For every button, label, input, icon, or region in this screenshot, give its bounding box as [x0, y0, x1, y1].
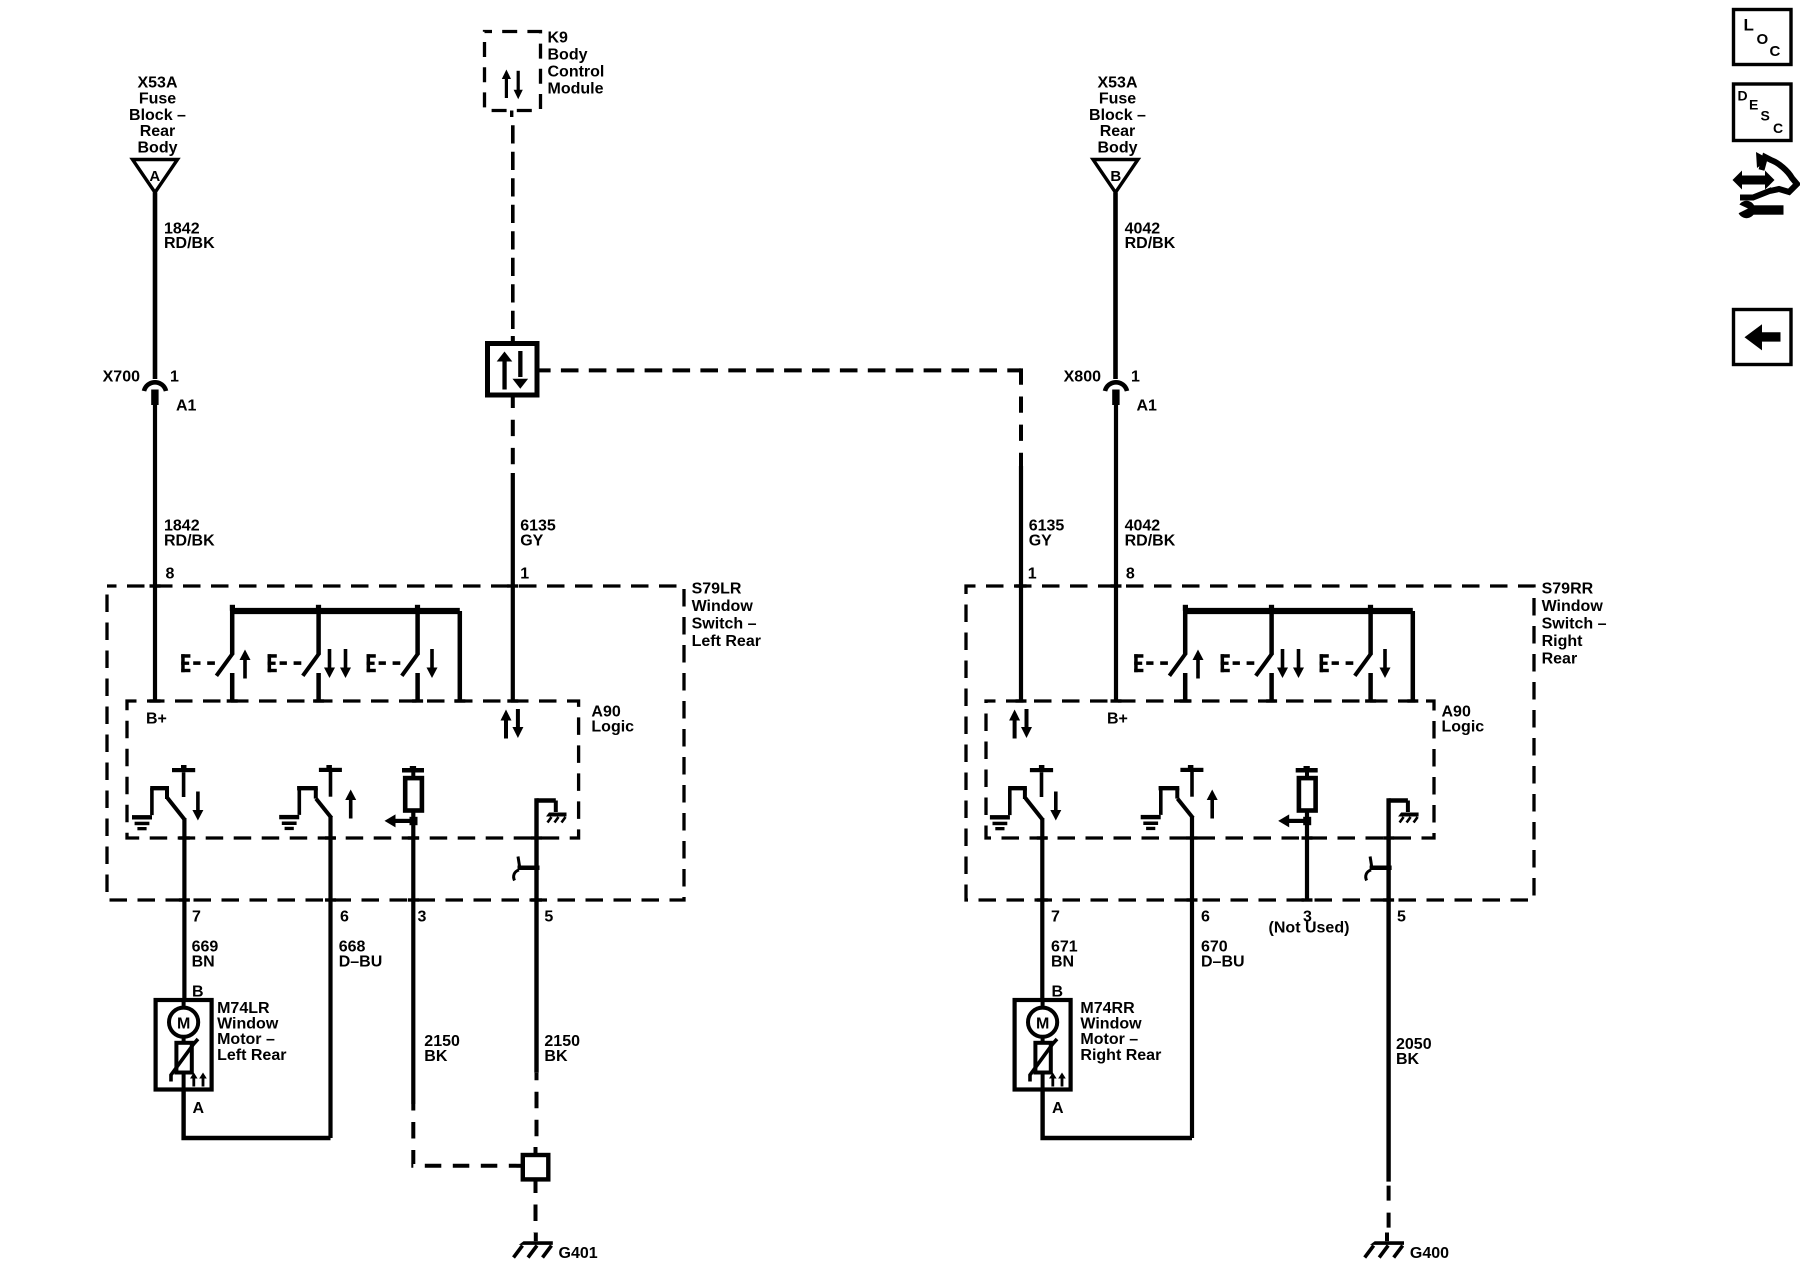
svg-text:Body: Body	[138, 139, 178, 156]
M74RR label	[1080, 1000, 1161, 1064]
svg-text:Left Rear: Left Rear	[692, 633, 761, 650]
icon wiring navigation (double arrow with wrench)	[1733, 152, 1798, 218]
logic data arrows (left)	[501, 709, 524, 739]
svg-text:C: C	[1770, 43, 1781, 60]
wire 4042 RD/BK lower (right), pin 8 feed	[1114, 405, 1118, 701]
svg-text:Body: Body	[1098, 139, 1138, 156]
svg-text:Window: Window	[1542, 598, 1604, 615]
svg-text:X700: X700	[103, 369, 140, 386]
svg-text:Window: Window	[1080, 1016, 1142, 1033]
svg-text:8: 8	[166, 566, 175, 583]
svg-text:K9: K9	[548, 30, 569, 47]
label 1842 RD/BK upper left	[164, 220, 215, 252]
svg-text:A1: A1	[1137, 398, 1158, 415]
svg-text:GY: GY	[520, 532, 543, 549]
icon LOC button	[1734, 10, 1792, 65]
dashed wire splice to G401	[534, 1188, 538, 1233]
wire motor A to pin 6 (left)	[184, 1090, 331, 1139]
svg-text:1: 1	[520, 566, 529, 583]
K9 Body Control Module box	[485, 30, 605, 111]
svg-text:X800: X800	[1064, 369, 1101, 386]
logic up-drive switch, pin 6 output (right)	[1141, 765, 1218, 1138]
svg-text:Control: Control	[548, 64, 605, 81]
svg-text:1: 1	[1028, 566, 1037, 583]
pin numbers bottom (right)	[1051, 909, 1406, 926]
svg-text:Rear: Rear	[1542, 651, 1578, 668]
svg-text:M74LR: M74LR	[217, 1000, 270, 1017]
svg-text:RD/BK: RD/BK	[164, 235, 215, 252]
svg-text:5: 5	[544, 909, 553, 926]
svg-text:BK: BK	[544, 1048, 568, 1065]
svg-text:A: A	[1052, 1100, 1064, 1117]
wire 1842 RD/BK lower (left), pin 8 feed	[153, 405, 157, 701]
svg-text:RD/BK: RD/BK	[164, 532, 215, 549]
svg-text:3: 3	[418, 909, 427, 926]
svg-text:Window: Window	[217, 1016, 279, 1033]
svg-text:Left Rear: Left Rear	[217, 1047, 286, 1064]
logic down-drive switch, pin 7 output (left)	[132, 765, 203, 1000]
svg-text:X53A: X53A	[1097, 75, 1137, 92]
fuse block X53A label (left)	[129, 75, 186, 157]
logic data arrows (right)	[1009, 709, 1032, 739]
svg-text:S: S	[1761, 108, 1770, 124]
window motor M74LR	[156, 1000, 212, 1117]
svg-text:L: L	[1744, 16, 1754, 35]
icon back arrow button	[1734, 310, 1792, 365]
window down switch contact (right)	[1320, 611, 1391, 701]
svg-text:Block –: Block –	[1089, 107, 1146, 124]
svg-text:RD/BK: RD/BK	[1125, 532, 1176, 549]
fuse block X53A label (right)	[1089, 75, 1146, 157]
connector X700	[103, 369, 197, 415]
svg-text:G400: G400	[1410, 1245, 1449, 1262]
wire label 671 BN	[1051, 939, 1078, 971]
svg-text:C: C	[1773, 120, 1783, 136]
svg-text:1: 1	[170, 369, 179, 386]
svg-text:B+: B+	[1107, 711, 1128, 728]
svg-text:GY: GY	[1029, 532, 1052, 549]
window auto-down switch contact (left)	[268, 611, 351, 701]
svg-text:7: 7	[192, 909, 201, 926]
svg-text:BK: BK	[424, 1048, 448, 1065]
svg-text:M74RR: M74RR	[1080, 1000, 1135, 1017]
dashed wire 6135 GY left drop	[511, 395, 515, 701]
A90 logic label (right)	[1442, 704, 1485, 736]
A90 logic box (left)	[127, 701, 579, 838]
svg-text:BN: BN	[192, 954, 215, 971]
svg-text:Right: Right	[1542, 633, 1584, 650]
pin numbers bottom (left)	[192, 909, 553, 926]
svg-text:A: A	[193, 1100, 205, 1117]
S79RR title	[1542, 581, 1607, 668]
window down switch contact (left)	[367, 611, 438, 701]
svg-text:Block –: Block –	[129, 107, 186, 124]
svg-text:Motor –: Motor –	[1080, 1031, 1138, 1048]
svg-text:Switch –: Switch –	[692, 616, 757, 633]
wire crossing ticks on dashed edges	[150, 584, 1419, 901]
svg-text:6: 6	[340, 909, 349, 926]
svg-text:7: 7	[1051, 909, 1060, 926]
svg-text:Fuse: Fuse	[139, 91, 176, 108]
svg-text:A1: A1	[176, 398, 197, 415]
svg-text:Fuse: Fuse	[1099, 91, 1136, 108]
svg-text:5: 5	[1397, 909, 1406, 926]
logic sense resistor, pin 3 (left)	[385, 766, 425, 899]
label 2150 BK pin3	[424, 1033, 460, 1065]
svg-text:D–BU: D–BU	[339, 954, 383, 971]
label 6135 GY left, pin 1	[520, 518, 556, 583]
svg-text:E: E	[1749, 97, 1758, 113]
svg-text:Switch –: Switch –	[1542, 616, 1607, 633]
svg-text:D–BU: D–BU	[1201, 954, 1245, 971]
window auto-down switch contact (right)	[1221, 611, 1304, 701]
splice S401 square	[517, 1147, 549, 1188]
svg-text:B: B	[1110, 168, 1121, 185]
A90 logic box (right)	[986, 701, 1434, 838]
wire motor A to pin 6 (right)	[1043, 1090, 1192, 1139]
svg-text:Motor –: Motor –	[217, 1031, 275, 1048]
label 4042 RD/BK lower right	[1125, 518, 1176, 583]
window motor M74RR	[1015, 1000, 1071, 1117]
dashed wire BCM horizontal run to right	[537, 368, 1021, 372]
S79LR title	[692, 581, 761, 651]
label 4042 RD/BK upper right	[1125, 220, 1176, 252]
wire 4042 RD/BK upper (right)	[1113, 193, 1118, 380]
svg-text:B+: B+	[146, 711, 167, 728]
svg-text:1: 1	[1131, 369, 1140, 386]
logic ground leg, pin 5 (left)	[514, 798, 567, 898]
wire label 670 D-BU	[1201, 939, 1245, 971]
dashed wire 6135 GY right drop	[1019, 368, 1023, 701]
svg-text:BK: BK	[1396, 1051, 1420, 1068]
S79RR window switch box (right)	[966, 586, 1534, 900]
switch bus bar (right)	[1183, 605, 1413, 701]
svg-text:BN: BN	[1051, 954, 1074, 971]
svg-text:8: 8	[1126, 566, 1135, 583]
svg-text:X53A: X53A	[137, 75, 177, 92]
svg-text:RD/BK: RD/BK	[1125, 235, 1176, 252]
logic down-drive switch, pin 7 output (right)	[990, 765, 1061, 1000]
ground G401	[514, 1233, 598, 1263]
svg-text:S79RR: S79RR	[1542, 581, 1594, 598]
wire 1842 RD/BK upper (left)	[153, 193, 158, 380]
S79LR window switch box (left)	[107, 586, 684, 900]
svg-text:Right Rear: Right Rear	[1080, 1047, 1161, 1064]
A90 logic label (left)	[591, 704, 634, 736]
window up switch contact (right)	[1134, 611, 1203, 701]
label 2150 BK pin5	[544, 1033, 580, 1065]
icon DESC button	[1734, 84, 1792, 141]
svg-text:Module: Module	[548, 81, 604, 98]
connector X800	[1064, 369, 1157, 415]
fuse block triangle B	[1093, 160, 1138, 193]
logic sense resistor, pin 3 (right, not used)	[1278, 766, 1318, 899]
ground G400	[1365, 1233, 1449, 1263]
switch bus bar (left)	[230, 605, 460, 701]
svg-text:Rear: Rear	[140, 123, 176, 140]
fuse block triangle A	[133, 160, 178, 193]
wire label 669 BN	[192, 939, 219, 971]
svg-text:Window: Window	[692, 598, 754, 615]
label 6135 GY right, pin 1	[1028, 518, 1065, 583]
logic up-drive switch, pin 6 output (left)	[279, 765, 356, 1138]
svg-text:O: O	[1757, 31, 1769, 48]
svg-text:D: D	[1738, 88, 1748, 104]
svg-text:Logic: Logic	[591, 718, 634, 735]
wire label 668 D-BU	[339, 939, 383, 971]
label 1842 RD/BK lower left	[164, 518, 215, 583]
svg-text:Rear: Rear	[1100, 123, 1136, 140]
svg-text:Logic: Logic	[1442, 718, 1485, 735]
svg-text:Body: Body	[548, 47, 588, 64]
logic ground leg, pin 5 (right)	[1366, 798, 1419, 898]
svg-text:S79LR: S79LR	[692, 581, 742, 598]
svg-text:6: 6	[1201, 909, 1210, 926]
wire 2150 BK from pin 5 (left)	[534, 899, 538, 1148]
window motor driver box with up/down arrows	[488, 336, 538, 395]
dashed wire BCM to driver box	[512, 111, 513, 342]
svg-text:(Not Used): (Not Used)	[1269, 920, 1350, 937]
svg-text:G401: G401	[559, 1245, 598, 1262]
M74LR label	[217, 1000, 286, 1064]
window up switch contact (left)	[181, 611, 250, 701]
wire 2150 BK from pin 3 (left)	[411, 899, 516, 1166]
label 2050 BK	[1396, 1036, 1432, 1068]
svg-text:A: A	[149, 168, 160, 185]
wire 2050 BK from pin 5 (right)	[1386, 899, 1390, 1234]
